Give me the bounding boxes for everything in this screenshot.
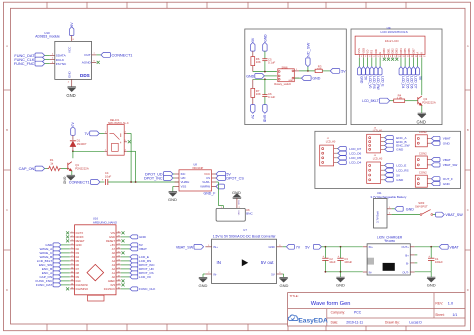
svg-text:LCD_D5: LCD_D5 xyxy=(349,156,361,160)
svg-text:VCC: VCC xyxy=(68,46,72,53)
relay RELAY1 SRD-05VDC-SL-C xyxy=(104,119,128,155)
pin FSYNC xyxy=(50,63,55,65)
LCD pin 6 E xyxy=(378,52,383,59)
svg-text:GND: GND xyxy=(237,200,239,205)
ground (Q1) xyxy=(63,175,75,184)
pin 6 VCC of U10 xyxy=(71,36,73,42)
svg-text:CONNECT1: CONNECT1 xyxy=(69,181,90,185)
junction xyxy=(264,78,266,80)
wire + netport 5V xyxy=(362,58,368,81)
svg-text:1.0: 1.0 xyxy=(448,302,453,306)
svg-text:GND: GND xyxy=(76,243,82,247)
svg-text:10K: 10K xyxy=(256,60,261,64)
svg-text:Rotary_switch: Rotary_switch xyxy=(274,82,291,86)
svg-text:DB5: DB5 xyxy=(403,48,407,54)
svg-text:DB0: DB0 xyxy=(382,48,386,54)
svg-text:D11/MOSI: D11/MOSI xyxy=(76,283,89,287)
svg-text:VBAT: VBAT xyxy=(449,246,459,250)
svg-text:0.1uF: 0.1uF xyxy=(268,60,275,64)
junction (D1/Q1/relay) xyxy=(72,150,74,152)
svg-text:D7: D7 xyxy=(76,267,80,271)
svg-text:LCD_H3: LCD_H3 xyxy=(373,157,383,160)
USB connector of U16 xyxy=(88,295,104,301)
capacitor C2 10uF xyxy=(322,247,336,272)
svg-text:EasyEDA: EasyEDA xyxy=(298,318,328,325)
LCD pin 15 A xyxy=(416,52,422,59)
LCD pin 14 DB7 xyxy=(411,48,417,58)
svg-text:CON2: CON2 xyxy=(419,130,427,134)
svg-text:5V out: 5V out xyxy=(261,260,274,265)
netport VBAT xyxy=(431,158,451,162)
no-connect xyxy=(122,279,125,282)
svg-text:3V3: 3V3 xyxy=(110,283,115,287)
netport CONNECT1 (DDS out) xyxy=(96,53,132,58)
netport ENC_B (U16 left) xyxy=(42,267,70,271)
svg-text:CON2: CON2 xyxy=(419,171,427,175)
svg-text:A6: A6 xyxy=(112,251,116,255)
netport ENC_SW xyxy=(384,143,410,147)
svg-text:IN+: IN+ xyxy=(213,245,218,249)
connector J2 LCD_H0 xyxy=(320,138,337,166)
netport VBAT_SW xyxy=(431,163,457,167)
netport ENC_A (U16 left) xyxy=(42,271,70,275)
svg-text:A2: A2 xyxy=(112,267,116,271)
svg-text:1N4007: 1N4007 xyxy=(77,142,87,146)
svg-text:OUT: OUT xyxy=(84,53,91,57)
U16 pin row D5 / A4 xyxy=(70,259,121,263)
svg-text:Company:: Company: xyxy=(331,311,346,315)
svg-text:OUT-: OUT- xyxy=(402,271,409,275)
netport FUNC_FNC xyxy=(14,61,50,66)
svg-text:GND: GND xyxy=(417,120,426,125)
svg-text:LCD_RW: LCD_RW xyxy=(376,76,380,89)
ground (BNC shield, pointing up) xyxy=(232,190,241,209)
svg-text:GND_F: GND_F xyxy=(204,192,216,196)
svg-text:GND: GND xyxy=(263,34,267,42)
svg-text:GND: GND xyxy=(280,283,289,288)
netport GND (battery -) xyxy=(392,206,415,211)
netport GND xyxy=(431,141,450,145)
capacitor C6 0.1uF xyxy=(262,79,275,104)
svg-text:GND: GND xyxy=(396,178,404,182)
svg-text:C: C xyxy=(6,208,8,212)
svg-text:LCD_H1: LCD_H1 xyxy=(373,130,383,133)
resistor R6 10K xyxy=(251,51,261,72)
svg-text:RS: RS xyxy=(370,50,374,54)
junction xyxy=(430,246,432,248)
svg-text:IN: IN xyxy=(217,260,221,265)
ground (charger in) xyxy=(336,272,345,288)
svg-text:SW-SPST: SW-SPST xyxy=(415,204,428,208)
resistor R1 1k (zigzag) xyxy=(48,158,68,171)
svg-text:5V: 5V xyxy=(341,69,346,73)
svg-text:VBAT_SW: VBAT_SW xyxy=(443,163,458,167)
section box: headers/connectors xyxy=(315,131,461,188)
svg-text:GND: GND xyxy=(312,77,320,81)
U16 pin row D9 / A0 xyxy=(70,275,121,279)
U16 pin row D8 / A1 xyxy=(70,271,121,275)
svg-text:D5: D5 xyxy=(76,259,80,263)
netport LCD_E (U16 right) xyxy=(121,255,149,259)
svg-text:1.5V to 5V 500mA DC-DC Boost C: 1.5V to 5V 500mA DC-DC Boost Converter xyxy=(213,234,277,238)
wire VSS to ground xyxy=(173,187,175,192)
netport 5V xyxy=(384,173,401,177)
svg-text:0.1uF: 0.1uF xyxy=(268,95,275,99)
svg-text:D: D xyxy=(467,288,469,292)
svg-text:FUNC_DAT: FUNC_DAT xyxy=(36,283,52,287)
svg-text:A: A xyxy=(467,44,469,48)
netport GND (U16 right) xyxy=(121,235,147,239)
svg-text:A3: A3 xyxy=(112,263,116,267)
junction xyxy=(325,271,327,273)
wire + netport LCD_RW xyxy=(374,58,380,90)
svg-text:D13/SCK: D13/SCK xyxy=(104,287,115,291)
LCD pin 5 RW xyxy=(374,49,379,58)
svg-text:DB6: DB6 xyxy=(407,48,411,54)
svg-text:REV:: REV: xyxy=(435,302,443,306)
netport 7V (U7 pin3) xyxy=(283,244,301,249)
wire down to Q1 collector xyxy=(72,151,74,158)
U16 pin row D7 / A2 xyxy=(70,267,121,271)
wire LCD K to Q2 collector xyxy=(421,58,423,95)
svg-text:GND: GND xyxy=(237,210,239,215)
no-connect (relay pin 5) xyxy=(128,140,131,143)
title block xyxy=(288,293,465,326)
svg-text:GND: GND xyxy=(199,283,208,288)
svg-text:B+: B+ xyxy=(405,253,409,257)
svg-text:GND: GND xyxy=(336,283,345,288)
svg-text:BNC: BNC xyxy=(246,211,253,215)
svg-text:GND: GND xyxy=(109,235,115,239)
netport LCD_BKLT (U16 left) xyxy=(37,259,70,263)
svg-text:RESET: RESET xyxy=(106,239,115,243)
svg-text:E: E xyxy=(378,52,382,54)
GND power port (encoder bottom) xyxy=(263,105,267,123)
svg-text:D8: D8 xyxy=(76,271,80,275)
svg-text:A: A xyxy=(6,44,8,48)
junction xyxy=(307,70,309,72)
netport DPOT_UD xyxy=(145,172,175,177)
netport FUNC_FNC (U16 left) xyxy=(36,279,70,283)
netport LCD_E xyxy=(384,163,406,167)
netport 5V (to charger) xyxy=(305,244,325,249)
wire + netport LCD_D6 xyxy=(407,58,413,89)
no-connect xyxy=(66,239,69,242)
svg-text:VBAT: VBAT xyxy=(443,137,451,141)
netport WAVE_C (U16 left) xyxy=(39,251,69,255)
ground (DDS) xyxy=(66,87,76,98)
wire + netport LCD_E xyxy=(378,58,384,87)
netport CAP_ON xyxy=(19,166,48,171)
wire + netport LCD_RS xyxy=(370,58,376,89)
netport LCD_RS xyxy=(384,168,409,172)
svg-text:LCD_D5: LCD_D5 xyxy=(405,76,409,88)
svg-text:5V: 5V xyxy=(305,246,310,250)
wire encoder B xyxy=(253,78,277,80)
LCD pin 8 DB1 xyxy=(386,48,391,58)
netport GND (encoder left) xyxy=(246,74,264,79)
netport GND (SW6 pin) xyxy=(294,76,320,81)
svg-text:B-: B- xyxy=(406,261,409,265)
resistor R7 10K xyxy=(251,79,261,104)
svg-text:TP4056: TP4056 xyxy=(384,239,395,243)
Arduino logo diamond xyxy=(87,264,104,280)
netport LCD_D6 xyxy=(337,151,362,155)
svg-text:DB1: DB1 xyxy=(386,48,390,54)
netport CAP_ON (U16 left) xyxy=(39,275,69,279)
svg-text:GND: GND xyxy=(168,197,177,202)
junction xyxy=(130,181,132,183)
svg-text:LCD_BKLT: LCD_BKLT xyxy=(362,99,378,103)
no-connect xyxy=(387,58,390,61)
netport 7V (relay coil) xyxy=(84,131,104,136)
svg-text:DPOT_INC: DPOT_INC xyxy=(144,177,163,181)
svg-text:VBAT_SW: VBAT_SW xyxy=(176,246,194,250)
svg-text:GND: GND xyxy=(66,93,75,98)
LCD pin 13 DB6 xyxy=(407,48,413,58)
netport LCD_BKLT xyxy=(362,98,394,103)
no-connect xyxy=(122,231,125,234)
wire + netport LCD_D4 xyxy=(399,58,405,89)
connector CON2 xyxy=(415,151,431,168)
svg-text:ARDUINO_NANO: ARDUINO_NANO xyxy=(93,221,118,225)
LCD pin 4 RS xyxy=(370,50,375,59)
svg-text:VBAT_SW: VBAT_SW xyxy=(445,213,463,217)
LCD pin 2 VDD xyxy=(361,48,366,58)
svg-text:GND: GND xyxy=(139,235,147,239)
section box: LCD display xyxy=(351,29,442,125)
svg-text:D0/RX: D0/RX xyxy=(76,235,84,239)
svg-text:LCD_E: LCD_E xyxy=(396,164,406,168)
junction xyxy=(340,271,342,273)
battery U11 3.7V rechargeable xyxy=(370,191,407,228)
svg-text:PCC: PCC xyxy=(354,311,362,315)
svg-text:+5V: +5V xyxy=(110,243,115,247)
wire B- stub xyxy=(415,262,418,264)
svg-text:Sheet:: Sheet: xyxy=(435,313,444,317)
svg-text:OUT_F: OUT_F xyxy=(443,177,453,181)
svg-text:D12/MISO: D12/MISO xyxy=(76,287,89,291)
svg-text:GND: GND xyxy=(406,207,414,211)
svg-text:10K: 10K xyxy=(256,92,261,96)
netport FUNC_DAT (U16 left) xyxy=(36,283,70,287)
svg-text:TITLE:: TITLE: xyxy=(290,294,299,298)
svg-text:11: 11 xyxy=(403,56,405,58)
netport ENC_A xyxy=(384,136,408,140)
svg-text:A1: A1 xyxy=(112,271,116,275)
svg-text:GND: GND xyxy=(443,142,451,146)
svg-text:A0: A0 xyxy=(112,275,116,279)
svg-text:GND: GND xyxy=(443,182,451,186)
LCD pin 16 K xyxy=(420,52,426,59)
connector CON2 xyxy=(415,130,431,147)
wire encoder A xyxy=(253,71,277,73)
netport OUT_F xyxy=(431,177,453,181)
svg-text:RW: RW xyxy=(374,49,378,54)
netport LCD_D4 xyxy=(337,160,362,164)
svg-text:GND: GND xyxy=(396,148,404,152)
svg-text:LCD_D7: LCD_D7 xyxy=(414,76,418,88)
svg-text:15: 15 xyxy=(419,56,421,58)
svg-text:P2N2222A: P2N2222A xyxy=(422,101,436,105)
netport CONNECT1 (to C4) xyxy=(69,180,105,185)
wire bottom rail (charger in) xyxy=(325,271,362,273)
junction xyxy=(325,246,327,248)
7V power port (relay) xyxy=(71,121,76,135)
U16 pin row D12/MISO / D13/SCK xyxy=(70,287,121,291)
svg-text:FUNC_CLK: FUNC_CLK xyxy=(139,287,156,291)
GND power port (encoder top) xyxy=(263,34,268,51)
svg-text:DB7: DB7 xyxy=(411,48,415,54)
svg-text:C: C xyxy=(467,208,469,212)
svg-text:VIN: VIN xyxy=(111,231,116,235)
svg-text:D9: D9 xyxy=(76,275,80,279)
svg-text:A: A xyxy=(416,52,420,54)
ground (Q2) xyxy=(417,113,426,124)
svg-text:K: K xyxy=(420,52,424,54)
LCD pin 12 DB5 xyxy=(403,48,409,58)
capacitor C1 100uF xyxy=(428,247,443,272)
wire + netport LCD_D5 xyxy=(403,58,409,89)
svg-text:U7: U7 xyxy=(243,228,247,232)
netport GND xyxy=(431,182,450,186)
netport VBAT (charger out) xyxy=(439,244,459,249)
no-connect xyxy=(66,287,69,290)
no-connect xyxy=(122,251,125,254)
svg-text:D10: D10 xyxy=(76,279,81,283)
svg-text:3.7V Batt: 3.7V Batt xyxy=(375,211,379,223)
netport FUNC_DAT xyxy=(14,53,49,58)
svg-text:GND: GND xyxy=(288,80,293,82)
netport ENC_B xyxy=(384,140,407,144)
MCU U16 ARDUINO_NANO xyxy=(75,217,118,295)
no-connect xyxy=(66,231,69,234)
netport (U8 VW/RW) xyxy=(204,184,225,195)
capacitor C4 10uF (polarized) xyxy=(102,171,112,185)
connector J4 LCD_H3 xyxy=(367,155,384,183)
svg-text:FSYNC: FSYNC xyxy=(56,62,67,66)
netport ENC_SW (U16 left) xyxy=(39,263,70,267)
svg-text:VDD: VDD xyxy=(361,48,365,54)
rotary switch SW6 xyxy=(274,66,299,87)
wire 7V to D1 xyxy=(72,135,74,140)
svg-text:LCD_RS: LCD_RS xyxy=(396,169,408,173)
U16 pin row D10 / AREF xyxy=(70,279,121,283)
svg-text:IN+: IN+ xyxy=(369,245,374,249)
ground (charger out) xyxy=(427,272,436,288)
wire + netport LCD_V0 xyxy=(366,58,372,89)
IC U8 X9C104P xyxy=(175,163,216,191)
5V power port (encoder top) xyxy=(251,37,256,51)
svg-text:9: 9 xyxy=(394,56,395,58)
svg-text:DDS: DDS xyxy=(80,73,90,78)
svg-text:GND: GND xyxy=(263,115,267,123)
svg-text:VBAT: VBAT xyxy=(443,158,451,162)
svg-text:A5: A5 xyxy=(112,255,116,259)
wire VL/RL to BNC xyxy=(216,182,223,208)
svg-text:CONNECT1: CONNECT1 xyxy=(112,53,133,57)
wire + netport GND xyxy=(357,58,363,84)
transistor Q1 P2N2222A xyxy=(68,162,89,171)
svg-text:LCD 16X2CHCOLS: LCD 16X2CHCOLS xyxy=(381,30,408,34)
5V power port (encoder bottom) xyxy=(251,105,256,120)
wire SW6 to R3 xyxy=(299,70,315,72)
svg-text:LCD_V0: LCD_V0 xyxy=(139,275,151,279)
LCD pin 9 DB2 xyxy=(391,48,396,58)
svg-text:A7: A7 xyxy=(112,247,116,251)
netport DPOT_CS (U16 right) xyxy=(121,271,154,275)
wire B+ stub xyxy=(415,254,418,256)
connector J3 LCD_H1 xyxy=(367,127,384,153)
svg-text:7V: 7V xyxy=(84,132,89,136)
svg-text:100uF: 100uF xyxy=(344,260,352,264)
svg-text:CON2: CON2 xyxy=(419,151,427,155)
netport DPOT_CS xyxy=(216,176,244,181)
svg-text:GND: GND xyxy=(360,76,364,84)
ground (U8 VSS) xyxy=(168,192,177,202)
netport DPOT_INC xyxy=(144,176,175,181)
svg-text:D: D xyxy=(6,288,8,292)
junction xyxy=(135,181,137,183)
svg-text:1: 1 xyxy=(361,56,362,58)
svg-text:AREF: AREF xyxy=(108,279,116,283)
svg-text:X9C104P: X9C104P xyxy=(192,166,203,170)
netport WAVE_A (U16 left) xyxy=(40,247,70,251)
wire U7 pin4 to ground xyxy=(283,274,284,277)
no-connect xyxy=(395,58,398,61)
netport LCD_RS (U16 right) xyxy=(121,259,151,263)
LCD pin 1 VSS xyxy=(357,48,362,58)
svg-text:Lucas D: Lucas D xyxy=(409,321,422,325)
svg-text:LCD_D4: LCD_D4 xyxy=(349,161,361,165)
U16 pin row D4 / A5 xyxy=(70,255,121,259)
svg-text:RESET: RESET xyxy=(76,239,85,243)
LCD pin 11 DB4 xyxy=(399,48,405,58)
connector U6 BNC xyxy=(216,207,253,221)
no-connect xyxy=(66,235,69,238)
svg-text:GND: GND xyxy=(246,74,254,78)
svg-text:6: 6 xyxy=(382,56,383,58)
netport 5V (U16 right) xyxy=(121,243,144,247)
svg-text:D4: D4 xyxy=(76,255,80,259)
svg-text:AGND: AGND xyxy=(82,61,92,65)
netport LCD_D5 xyxy=(337,156,362,160)
U16 pin row GND / +5V xyxy=(70,243,121,247)
netport VBAT_SW (battery) xyxy=(433,212,464,217)
svg-text:10: 10 xyxy=(398,56,400,58)
svg-text:DB3: DB3 xyxy=(395,48,399,54)
switch SW3 SW-SPST xyxy=(415,201,433,216)
svg-text:5: 5 xyxy=(378,56,379,58)
LCD pin 7 DB0 xyxy=(382,48,387,58)
svg-text:LCD_D6: LCD_D6 xyxy=(409,76,413,88)
wire OUT- rail xyxy=(415,271,432,273)
svg-text:P2N2222A: P2N2222A xyxy=(75,167,89,171)
wire relay pin3 down xyxy=(127,133,131,182)
module LION_CHARGER TP4056 xyxy=(363,236,415,275)
svg-text:GND: GND xyxy=(268,245,274,249)
svg-text:Drawn By:: Drawn By: xyxy=(385,321,400,325)
pin DCLK xyxy=(50,59,55,61)
svg-text:GND: GND xyxy=(63,177,67,185)
wire Q2 emitter to ground xyxy=(421,105,423,113)
svg-text:LCD_H0: LCD_H0 xyxy=(326,141,336,144)
svg-text:3: 3 xyxy=(369,56,370,58)
U16 pin row D0/RX / GND xyxy=(70,235,121,239)
U16 pin row D2 / A7 xyxy=(70,247,121,251)
no-connect xyxy=(391,58,394,61)
svg-text:16x2 LCD: 16x2 LCD xyxy=(385,39,400,43)
